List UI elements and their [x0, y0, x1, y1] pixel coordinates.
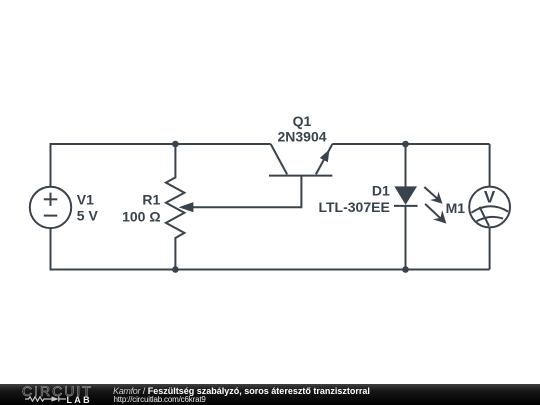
svg-text:R1: R1	[142, 192, 160, 208]
svg-text:5 V: 5 V	[77, 208, 99, 224]
svg-text:LTL-307EE: LTL-307EE	[318, 199, 389, 215]
svg-text:V1: V1	[77, 191, 94, 207]
svg-text:D1: D1	[372, 183, 390, 199]
svg-text:2N3904: 2N3904	[277, 129, 326, 145]
svg-text:100 Ω: 100 Ω	[122, 208, 160, 224]
svg-text:M1: M1	[446, 200, 466, 216]
svg-text:V: V	[484, 188, 496, 207]
svg-text:Q1: Q1	[293, 113, 312, 129]
